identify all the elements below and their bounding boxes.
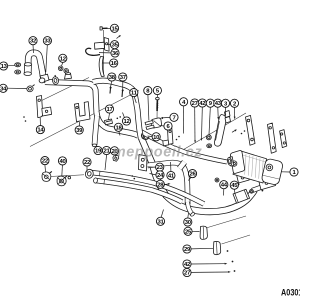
callout 18 xyxy=(114,123,122,131)
callout 40 xyxy=(58,157,66,165)
bolt 15 axis line xyxy=(103,30,105,76)
canister foot bolt dots xyxy=(238,183,264,191)
leader 24 xyxy=(150,174,156,175)
leader 18 xyxy=(119,132,120,136)
bolt 15 xyxy=(100,27,108,30)
grommet 25 target xyxy=(200,226,207,239)
svg-text:meppoeil.cz: meppoeil.cz xyxy=(113,145,203,161)
small arrow right of strap xyxy=(232,129,237,132)
callout 45 xyxy=(230,181,238,189)
pipe 30 Y-tube xyxy=(148,163,196,217)
leader 43 with arrow xyxy=(217,108,219,120)
leader 11 xyxy=(134,97,136,103)
leader 40 xyxy=(61,165,64,176)
leader 27 lower with arrow xyxy=(191,271,231,273)
bolt dots center xyxy=(117,116,121,119)
leader 16 xyxy=(103,62,110,64)
pipe 11 main breather tube upper run xyxy=(45,82,139,136)
ring near tee xyxy=(250,189,254,193)
screw dots bottom right xyxy=(227,250,236,272)
pipe 32/33 filler J-pipe xyxy=(28,53,43,78)
hose sleeve 26 on Y-tube xyxy=(180,162,185,169)
bracket strip right B xyxy=(268,123,277,153)
callout 4 xyxy=(180,98,188,106)
svg-text:12: 12 xyxy=(60,56,67,62)
leader 12 lower xyxy=(123,113,125,118)
canister 1 right cap xyxy=(261,158,284,185)
bracket strip right C xyxy=(280,130,287,148)
callout 35 xyxy=(111,41,119,49)
svg-text:32: 32 xyxy=(30,39,37,45)
callout 20 xyxy=(110,147,118,155)
ring on pipe near 26 xyxy=(215,178,219,182)
wire guide line L3 xyxy=(181,113,246,151)
callout 10 xyxy=(152,133,160,141)
callout 2 xyxy=(230,99,238,107)
callout 37 xyxy=(119,73,127,81)
leader 7 with arrow xyxy=(160,117,169,119)
svg-text:22: 22 xyxy=(84,160,91,166)
callout 30 xyxy=(184,218,192,226)
leader 39 xyxy=(78,122,81,126)
callout 3 xyxy=(221,99,229,107)
bracket strip right A xyxy=(246,115,256,145)
clamp 34 xyxy=(26,85,34,93)
tee stub on tube xyxy=(65,73,72,79)
callout 15 xyxy=(110,24,118,32)
clamp 40 target xyxy=(57,176,67,186)
leader 38 xyxy=(110,81,111,87)
callout 27 upper xyxy=(191,99,199,107)
leader 19 xyxy=(96,145,98,147)
leader 28 with arrow xyxy=(164,183,170,185)
leader 44 xyxy=(223,189,225,196)
leader 37 xyxy=(122,81,124,90)
bolt dots near bracket 4 xyxy=(176,136,180,141)
bracket 14 xyxy=(37,96,52,118)
elbow 6 target xyxy=(151,118,161,128)
small arrow marker top xyxy=(117,35,121,39)
callout 14 xyxy=(36,126,44,134)
bolt 37 target xyxy=(122,89,124,97)
svg-text:21: 21 xyxy=(103,149,110,155)
svg-text:42: 42 xyxy=(184,262,191,268)
callout 44 xyxy=(220,181,228,189)
leader 22 left xyxy=(44,165,47,173)
leader 15 xyxy=(105,27,111,29)
svg-text:13: 13 xyxy=(1,64,8,70)
bolt dots near bracket 14 xyxy=(23,116,26,122)
bracket 35 xyxy=(95,38,110,52)
wire guide line L5 xyxy=(222,235,251,244)
leader 22 right xyxy=(86,166,88,172)
leader 4 xyxy=(183,106,185,134)
callout 28 xyxy=(156,180,164,188)
clamp on tube near J-pipe xyxy=(52,75,59,85)
clamp 22 left target xyxy=(42,171,52,181)
callout 42 lower xyxy=(183,260,191,268)
svg-text:29: 29 xyxy=(184,247,191,253)
hook 36 xyxy=(86,48,100,55)
callout 8 xyxy=(144,87,152,95)
svg-text:11: 11 xyxy=(131,91,138,97)
svg-text:30: 30 xyxy=(185,220,192,226)
strap 16 xyxy=(99,57,104,77)
svg-text:37: 37 xyxy=(120,75,127,81)
callout 39 xyxy=(75,126,83,134)
washer below ring 9 xyxy=(207,144,212,148)
canister 1 left cap xyxy=(230,151,244,174)
bracket 39 xyxy=(75,102,91,122)
hose elbow 44/45 sleeve xyxy=(233,189,250,203)
ring 12 pair upper xyxy=(58,66,63,71)
leader 9 xyxy=(209,108,210,135)
svg-text:24: 24 xyxy=(157,173,164,179)
leader 31 xyxy=(161,210,163,218)
small bracket 2 target xyxy=(225,111,231,124)
leader 45 xyxy=(233,189,236,194)
svg-text:15: 15 xyxy=(111,26,118,32)
callout 26 xyxy=(188,170,196,178)
leader 21 xyxy=(105,155,107,170)
svg-text:44: 44 xyxy=(221,183,228,189)
svg-text:23: 23 xyxy=(157,165,164,171)
svg-text:10: 10 xyxy=(153,135,160,141)
callout 23 xyxy=(156,163,164,171)
svg-text:35: 35 xyxy=(112,43,119,49)
callout 33 xyxy=(43,37,51,45)
washers 13 xyxy=(15,63,21,74)
callout 22 left xyxy=(41,157,49,165)
svg-text:28: 28 xyxy=(157,182,164,188)
svg-text:12: 12 xyxy=(123,119,130,125)
pipe R1a to canister port xyxy=(140,131,227,162)
leader 23 xyxy=(148,166,156,168)
bracket near 4 xyxy=(163,128,173,146)
nut 20 target xyxy=(113,155,119,161)
clamp axis line xyxy=(51,175,84,177)
callout 24 xyxy=(156,171,164,179)
leader 36 xyxy=(99,52,111,54)
leader 33 xyxy=(46,45,48,72)
callout 6 xyxy=(164,122,172,130)
leader 1 xyxy=(282,171,290,173)
pipe 31 main lower pipe R2 xyxy=(141,137,255,212)
callout 11 xyxy=(130,89,138,97)
grommet 29 target xyxy=(213,241,220,254)
canister 1 left port xyxy=(227,157,234,167)
elbow fitting at J-pipe base xyxy=(39,74,49,83)
bolt dots right xyxy=(241,130,246,134)
svg-text:42: 42 xyxy=(199,101,206,107)
callout 36 xyxy=(111,49,119,57)
svg-text:17: 17 xyxy=(106,107,113,113)
bolt 38 target xyxy=(110,87,112,94)
pipe to canister tee xyxy=(252,183,273,191)
ring 9 target xyxy=(206,135,211,140)
callout 19 xyxy=(94,146,102,154)
leader 6 xyxy=(160,124,164,127)
callout 12 upper xyxy=(59,54,67,62)
callout 34 xyxy=(0,84,7,92)
svg-text:41: 41 xyxy=(168,174,175,180)
svg-text:31: 31 xyxy=(157,219,164,225)
callout 22 right xyxy=(83,158,91,166)
callout 42 upper xyxy=(198,99,206,107)
callout 43 xyxy=(214,99,222,107)
svg-text:14: 14 xyxy=(37,128,44,134)
callout 9 xyxy=(206,99,214,107)
canister right foot xyxy=(259,176,276,190)
leader 30 xyxy=(187,213,190,218)
callout 29 xyxy=(183,245,191,253)
leader 35 xyxy=(107,43,110,45)
pipe P1 thin lower pipe xyxy=(89,170,204,204)
leader 17 xyxy=(109,113,110,119)
svg-text:45: 45 xyxy=(231,183,238,189)
callout 38 xyxy=(108,73,116,81)
svg-text:40: 40 xyxy=(59,159,66,165)
leader 42 upper xyxy=(201,107,203,141)
wire guide line L1 xyxy=(30,91,139,147)
callout 17 xyxy=(105,105,113,113)
svg-text:38: 38 xyxy=(109,75,116,81)
leader 26 xyxy=(188,177,191,181)
callout 5 xyxy=(153,86,161,94)
ring 12 pair lower xyxy=(64,69,69,74)
hook 10 target xyxy=(142,134,149,140)
svg-text:26: 26 xyxy=(189,172,196,178)
svg-text:18: 18 xyxy=(115,125,122,131)
leader 2 with arrow xyxy=(234,108,236,120)
svg-text:39: 39 xyxy=(76,128,83,134)
svg-text:22: 22 xyxy=(42,159,49,165)
svg-text:19: 19 xyxy=(95,149,102,155)
flange plate 23/24 xyxy=(139,155,148,172)
canister left foot xyxy=(237,172,250,183)
leader 12 upper xyxy=(62,63,63,66)
wire guide line L4 xyxy=(206,216,246,228)
leader 41 xyxy=(170,162,172,171)
small ring near clamp 40 xyxy=(68,176,71,179)
canister 1 body xyxy=(233,151,267,183)
leader 3 xyxy=(225,108,227,116)
svg-text:27: 27 xyxy=(184,271,191,277)
callout 13 xyxy=(0,62,8,70)
leader 42 lower with arrow xyxy=(191,263,227,265)
callout 7 xyxy=(170,113,178,121)
callout 21 xyxy=(102,146,110,154)
callout 27 lower xyxy=(183,268,191,276)
hose sleeve at J-pipe left leg xyxy=(24,63,32,76)
svg-text:A0301: A0301 xyxy=(281,288,300,299)
bracket 17 target xyxy=(105,119,113,125)
callout 41 xyxy=(167,171,175,179)
clamp 22 right target xyxy=(84,168,94,179)
leader 20 xyxy=(114,155,117,157)
leader 29 xyxy=(191,247,213,250)
strap 43 xyxy=(214,115,226,147)
leader 14 xyxy=(39,118,41,126)
callout 25 xyxy=(184,227,192,235)
callout 1 xyxy=(290,168,298,176)
leader 32 xyxy=(32,45,35,53)
svg-text:34: 34 xyxy=(0,86,7,92)
svg-text:33: 33 xyxy=(44,39,51,45)
leader 34 xyxy=(8,87,27,89)
callout 12 lower xyxy=(122,117,130,125)
bolt 5 xyxy=(156,97,160,120)
callout 32 xyxy=(29,37,37,45)
svg-text:25: 25 xyxy=(185,229,192,235)
callout 31 xyxy=(156,217,164,225)
pipe 19 lower left leg stub xyxy=(92,116,97,147)
svg-text:16: 16 xyxy=(111,61,118,67)
leader 5 xyxy=(156,95,158,98)
pipe 11 outer loop run xyxy=(93,81,141,139)
svg-text:43: 43 xyxy=(215,101,222,107)
svg-text:27: 27 xyxy=(192,101,199,107)
pipe P2 thin lower pipe xyxy=(93,178,182,202)
wire guide line L2 xyxy=(37,78,90,104)
svg-text:36: 36 xyxy=(112,51,119,57)
leader 10 xyxy=(148,135,153,138)
leader 25 xyxy=(192,230,199,232)
leader 8 xyxy=(148,95,149,121)
leader 13 xyxy=(8,64,15,67)
callout 16 xyxy=(110,59,118,67)
bolt dots near 28 xyxy=(132,175,136,179)
clamp 8 target strips xyxy=(145,121,154,130)
leader 27 upper xyxy=(194,107,196,143)
